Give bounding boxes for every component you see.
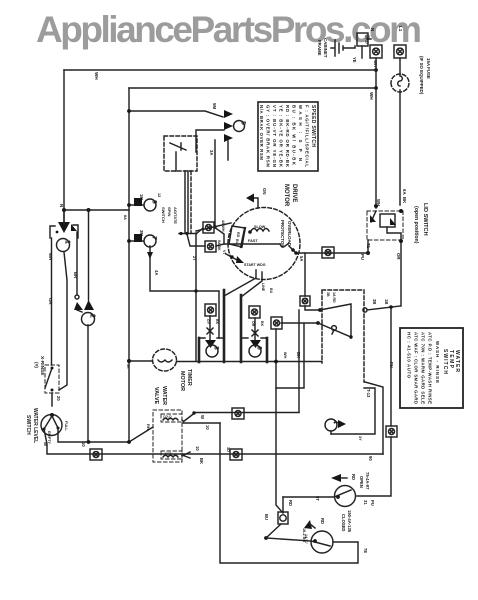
svg-text:OR: OR [251, 321, 255, 327]
svg-text:ATC WAF : CLOR SMAR GARD: ATC WAF : CLOR SMAR GARD [414, 332, 419, 404]
svg-text:WATER LEVEL: WATER LEVEL [32, 408, 38, 443]
wire x391 down to thermo 75 [357, 437, 391, 496]
svg-text:4A WH: 4A WH [221, 220, 225, 232]
wire contacts below timer block [179, 171, 196, 234]
svg-text:3B: 3B [326, 292, 330, 297]
svg-text:1M: 1M [139, 194, 144, 200]
svg-text:8A: 8A [123, 215, 127, 220]
wire x88 from junction down [88, 210, 90, 300]
svg-text:RD: RD [320, 518, 325, 524]
terminal box on y454 mid [226, 447, 242, 460]
node arrows into circle 2 [74, 302, 83, 310]
svg-text:X-RINSE: X-RINSE [39, 356, 45, 376]
svg-text:(open position): (open position) [413, 206, 419, 244]
wire valve cold out + switch arm [182, 413, 299, 424]
svg-text:10: 10 [81, 442, 86, 447]
svg-text:FRAME: FRAME [317, 40, 322, 56]
resistor fuse R1 [264, 512, 288, 540]
wire inner box left vertical x129 [128, 88, 130, 442]
svg-text:N/A BRAK OVER RSM: N/A BRAK OVER RSM [259, 105, 264, 160]
water valve dashed box [153, 410, 182, 462]
wire timer lines y283 y295 [150, 223, 231, 361]
svg-text:BU: BU [269, 288, 273, 294]
svg-text:10: 10 [195, 446, 200, 451]
svg-text:SLOW: SLOW [254, 225, 266, 229]
relay contact to motor upper: box [196, 222, 224, 244]
svg-text:RD: RD [288, 500, 293, 506]
wire top horizontal y70 [64, 69, 376, 71]
svg-text:OVERLOAD: OVERLOAD [287, 221, 292, 246]
svg-text:(#): (#) [33, 362, 39, 368]
svg-text:12: 12 [157, 193, 161, 197]
svg-text:BR: BR [73, 272, 78, 279]
wire speed switch feed y111 [129, 111, 223, 117]
wire dashed vertical below timer block [190, 171, 192, 233]
svg-text:LINE: LINE [261, 283, 265, 292]
svg-text:BK: BK [199, 458, 204, 464]
thermostat circle 4 [325, 419, 346, 434]
svg-text:BK: BK [296, 352, 301, 358]
wire valve hot out [182, 452, 190, 458]
svg-text:4A: 4A [154, 270, 159, 275]
fuse F1 15A [391, 58, 409, 205]
svg-text:2: 2 [89, 314, 96, 318]
svg-text:HC : 41-510 AUTO: HC : 41-510 AUTO [407, 332, 412, 379]
svg-text:15A FUSE: 15A FUSE [426, 58, 431, 79]
wire outer left vertical [63, 70, 65, 228]
svg-text:L1: L1 [398, 26, 403, 32]
wire temp PU down x391 [390, 307, 392, 426]
wire thermo75 left + resistor [282, 497, 284, 512]
thermostat 150F circle [304, 520, 358, 553]
svg-text:WH: WH [376, 199, 381, 206]
svg-text:1: 1 [64, 240, 71, 244]
svg-text:SWITCH: SWITCH [442, 349, 448, 374]
svg-text:SPIN: SPIN [167, 207, 172, 216]
svg-text:BU : BK W/ BU-BK: BU : BK W/ BU-BK [292, 105, 297, 166]
svg-text:RD: RD [351, 474, 356, 480]
wire valve left connect [129, 427, 153, 442]
wire speed contact feeds [196, 130, 228, 228]
svg-text:PU: PU [389, 362, 394, 368]
svg-text:20: 20 [56, 396, 61, 401]
terminal box x391 [386, 426, 397, 437]
svg-text:7E: 7E [363, 548, 368, 553]
svg-text:75-4A-97: 75-4A-97 [365, 472, 370, 490]
svg-text:YE: YE [352, 57, 357, 63]
water temp switch dashed box [322, 290, 364, 382]
svg-text:10: 10 [205, 425, 210, 430]
terminal N box [370, 28, 382, 67]
svg-text:HOT: HOT [165, 452, 172, 456]
node arrows speed contacts [224, 110, 233, 118]
svg-text:1A RD: 1A RD [332, 292, 336, 303]
terminal GRD box [357, 33, 370, 46]
wire arm to thermo150 [266, 538, 311, 541]
svg-text:3B: 3B [372, 299, 377, 304]
wire inner box top edge y88 [129, 87, 376, 89]
motor bottom leads to capacitors [224, 270, 262, 297]
svg-text:7: 7 [151, 236, 158, 240]
svg-text:WH: WH [94, 72, 99, 80]
svg-text:3M: 3M [139, 230, 144, 236]
wire y454 right turn up x383 [365, 382, 383, 454]
svg-text:AppliancePartsPros.com: AppliancePartsPros.com [36, 9, 422, 50]
svg-text:5A: 5A [299, 256, 304, 261]
timer motor TM dashed [126, 349, 177, 371]
wire water level switch right to x129 [58, 428, 129, 442]
lid switch S1 dashed box [367, 199, 403, 241]
terminal box on y412 [232, 408, 244, 419]
terminal box on y252 [322, 247, 334, 258]
svg-text:VT: VT [222, 250, 226, 255]
wire main horizontal y363 [177, 361, 323, 363]
relay contact chain left: bracket with arrows [50, 210, 78, 238]
wire temp feed verticals x299 x304 [276, 253, 320, 412]
timer cam circle 9 [127, 198, 157, 211]
svg-text:OR: OR [48, 298, 53, 305]
svg-text:RD: RD [236, 232, 240, 238]
motor start device circle 1 [57, 239, 71, 252]
wire water level switch bottom + long horizontal y454 [44, 429, 383, 454]
wire N vertical WH to lid switch [375, 58, 377, 208]
svg-text:4: 4 [332, 420, 339, 424]
svg-text:START WDG: START WDG [244, 263, 266, 267]
svg-text:W: W [200, 415, 205, 419]
svg-text:WH: WH [283, 352, 287, 359]
svg-text:DRIVE: DRIVE [291, 184, 297, 202]
svg-text:31: 31 [363, 500, 368, 505]
terminal box on y454 left [90, 449, 102, 460]
svg-text:5K: 5K [126, 364, 130, 369]
svg-text:WATER: WATER [161, 386, 167, 405]
water temp legend box [400, 328, 463, 408]
svg-text:WASH - RINSE: WASH - RINSE [435, 341, 440, 383]
node junction dots on N wire [374, 68, 378, 72]
svg-text:3D: 3D [226, 447, 230, 452]
svg-text:AGITATE: AGITATE [173, 207, 178, 224]
svg-text:14 'C': 14 'C' [304, 534, 308, 544]
svg-text:6A: 6A [402, 189, 407, 195]
svg-text:2T: 2T [192, 256, 197, 261]
drive motor M1 dashed circle [228, 207, 300, 279]
wire GRD to N [362, 39, 371, 58]
svg-text:FAST: FAST [248, 239, 258, 243]
svg-text:SPEED SWITCH: SPEED SWITCH [310, 105, 316, 147]
svg-text:BK: BK [215, 319, 219, 325]
svg-text:9T: 9T [315, 496, 320, 501]
wire big box left x220 and bottom [220, 423, 358, 563]
run winding bracket right (circle 6) [241, 338, 267, 362]
svg-text:ATC P.D : TEMP-WASH RINSE: ATC P.D : TEMP-WASH RINSE [428, 332, 433, 404]
svg-text:W: W [43, 442, 48, 446]
svg-text:3Y: 3Y [358, 436, 362, 441]
svg-text:OPEN: OPEN [359, 476, 364, 488]
temp switch contacts [316, 304, 400, 339]
svg-text:VT : BU-VT OR YE-GN: VT : BU-VT OR YE-GN [272, 105, 277, 167]
svg-text:WH: WH [369, 92, 374, 100]
svg-text:T-13: T-13 [366, 389, 371, 398]
svg-text:BU: BU [235, 239, 239, 245]
svg-text:6: 6 [256, 346, 263, 350]
svg-text:T1: T1 [366, 243, 371, 249]
speed switch circle 5 [234, 121, 247, 132]
svg-text:3: 3 [213, 346, 220, 350]
svg-text:TIMER: TIMER [186, 369, 192, 386]
svg-text:BK: BK [260, 321, 264, 327]
svg-text:MOTOR: MOTOR [179, 371, 185, 391]
svg-text:GY: GY [206, 319, 210, 325]
svg-text:3A: 3A [209, 150, 214, 155]
speed switch legend box [258, 102, 318, 171]
svg-text:WH: WH [48, 253, 53, 260]
start winding bracket left (circle 3) [199, 338, 224, 362]
svg-text:BU: BU [264, 514, 269, 520]
wire lid switch bottom [368, 240, 401, 306]
svg-text:5: 5 [240, 121, 247, 125]
svg-text:9: 9 [151, 200, 158, 204]
svg-text:9A BK: 9A BK [217, 240, 221, 251]
svg-text:1B: 1B [384, 299, 389, 304]
X-RINSE switch dashed [45, 365, 59, 393]
svg-text:(IF SO EQUIPPED): (IF SO EQUIPPED) [419, 56, 424, 95]
terminal L1 box [394, 26, 406, 58]
svg-text:GN: GN [262, 188, 267, 195]
wire x64 below circle1 [59, 252, 67, 390]
svg-text:BK: BK [402, 197, 407, 204]
svg-text:150-4A-135: 150-4A-135 [347, 510, 352, 533]
svg-text:PU: PU [370, 500, 375, 506]
timer block dashed box [164, 136, 197, 171]
svg-text:OR: OR [396, 253, 401, 260]
relay contact to motor lower: box [187, 234, 224, 252]
svg-text:YE : BK-YE OR YE-BK: YE : BK-YE OR YE-BK [279, 105, 284, 168]
svg-text:F : AGIT/FILL/SPECIAL: F : AGIT/FILL/SPECIAL [305, 105, 310, 167]
wire x77 BR [76, 232, 78, 294]
timer cam circle 7 [127, 234, 157, 247]
terminal box feed cap left [205, 304, 219, 340]
svg-text:RD : BK-RD OR RD-BK: RD : BK-RD OR RD-BK [285, 105, 290, 168]
svg-text:LID SWITCH: LID SWITCH [422, 203, 428, 236]
svg-text:MOTOR: MOTOR [283, 184, 289, 207]
svg-text:SWITCH: SWITCH [161, 207, 166, 223]
wire x51 WH/OR down to water level switch [51, 238, 54, 406]
svg-text:COLD: COLD [163, 415, 172, 419]
svg-text:PU: PU [360, 254, 365, 260]
motor windings [221, 220, 298, 263]
thermostat 75F circle [283, 474, 356, 507]
svg-text:CLOSED: CLOSED [341, 514, 346, 531]
svg-text:90: 90 [368, 456, 373, 461]
wire motor to lid switch horizontal y252 [296, 252, 368, 254]
svg-text:CABINET: CABINET [323, 38, 328, 58]
timer contact circle 2 [77, 310, 96, 442]
motor ground GN arrow [246, 188, 267, 208]
terminal box x276 [271, 317, 287, 513]
ground (cabinet frame) [331, 40, 355, 56]
svg-text:ATC 70N : WARM GARD SELE: ATC 70N : WARM GARD SELE [421, 332, 426, 404]
svg-text:SWITCH: SWITCH [25, 415, 31, 435]
wire left N node horizontal y210 [64, 209, 129, 211]
wire x377 [331, 388, 375, 434]
svg-text:GY : OVER/ BRAK RSM: GY : OVER/ BRAK RSM [266, 105, 271, 167]
terminal box feed cap right [249, 306, 264, 340]
svg-text:VALVE: VALVE [153, 387, 159, 405]
water level switch PS1 [41, 413, 62, 436]
svg-text:5M: 5M [212, 103, 217, 109]
svg-text:FULL: FULL [64, 421, 68, 431]
